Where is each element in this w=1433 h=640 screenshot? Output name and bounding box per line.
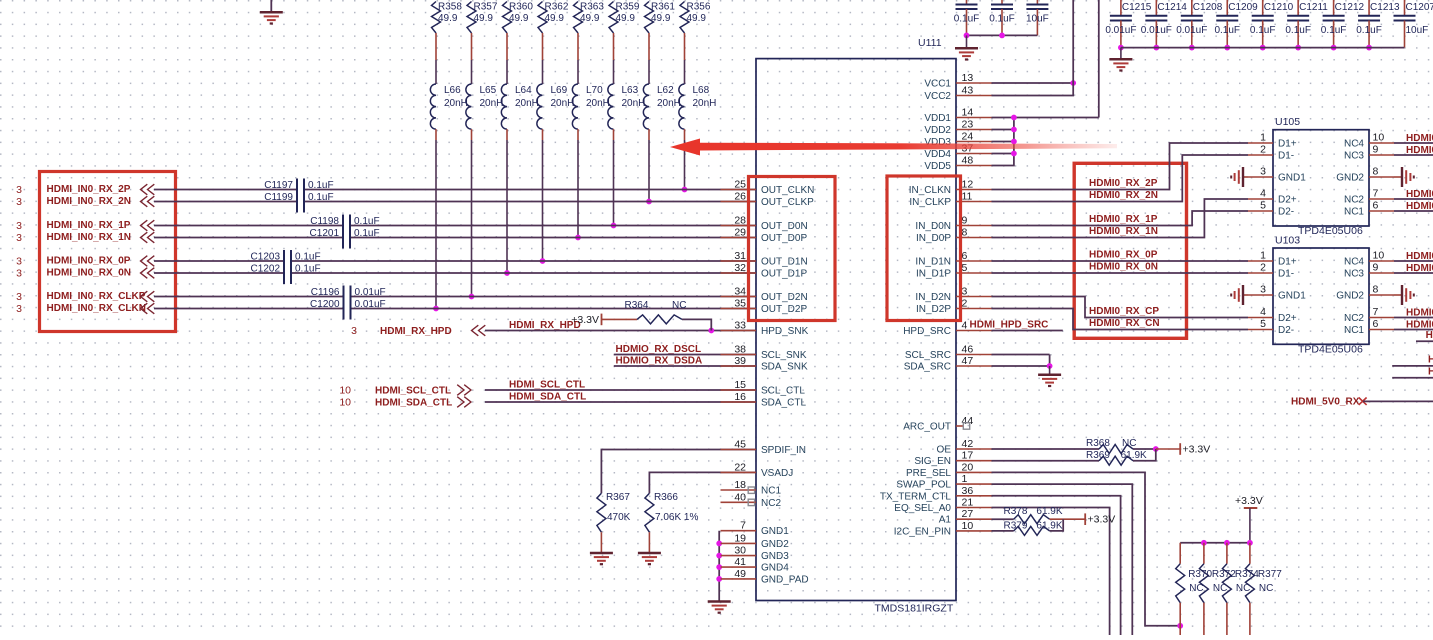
pin 29 OUT_D0P xyxy=(721,227,808,245)
wire R370 bottom lead xyxy=(1179,603,1181,635)
pin 35 OUT_D2P xyxy=(721,298,808,316)
wire HDMI_IN0_RX_1P xyxy=(154,225,342,227)
capacitor C1213 0.1uF xyxy=(1356,0,1400,48)
svg-text:10: 10 xyxy=(962,520,974,532)
svg-text:35: 35 xyxy=(734,298,746,310)
pin 4 D2+ (U103) xyxy=(1248,306,1297,324)
svg-text:HPD_SRC: HPD_SRC xyxy=(903,326,951,337)
wire to edge y=261 xyxy=(1394,260,1433,262)
off-page connector HDMI_IN0_RX_CLKN xyxy=(141,303,155,314)
capacitor C1212 0.1uF xyxy=(1321,0,1365,48)
resistor R370 NC xyxy=(1176,564,1213,603)
wire edge 365.9 xyxy=(1392,365,1433,367)
svg-text:3: 3 xyxy=(962,286,968,298)
svg-text:9: 9 xyxy=(962,215,968,227)
pin 37 VDD4 xyxy=(924,143,991,161)
junction VDD 141.5 xyxy=(1011,139,1017,145)
wire to +3.3V (OE) xyxy=(1156,448,1180,450)
svg-text:0.1uF: 0.1uF xyxy=(1321,25,1347,36)
ground (R366) xyxy=(638,553,661,564)
wire L69 to row xyxy=(542,129,544,140)
svg-text:HDMI_IN0_RX_0N: HDMI_IN0_RX_0N xyxy=(47,268,131,279)
junction GND 555.6 xyxy=(716,553,722,559)
svg-text:0.01uF: 0.01uF xyxy=(1105,25,1136,36)
pin 30 GND3 xyxy=(721,545,790,563)
svg-text:C1208: C1208 xyxy=(1193,2,1223,13)
svg-text:R364: R364 xyxy=(625,300,649,311)
svg-text:NC2: NC2 xyxy=(1344,195,1364,206)
pin 45 SPDIF_IN xyxy=(721,439,807,457)
ground (left cap bank) xyxy=(955,48,978,59)
svg-text:OE: OE xyxy=(937,445,952,456)
wire SRC to ground xyxy=(1049,366,1051,375)
svg-text:IN_D2P: IN_D2P xyxy=(916,304,951,315)
svg-text:8: 8 xyxy=(962,227,968,239)
svg-text:6: 6 xyxy=(1373,318,1379,330)
svg-text:0.01uF: 0.01uF xyxy=(1176,25,1207,36)
svg-text:L69: L69 xyxy=(551,85,568,96)
pin 21 EQ_SEL_A0 xyxy=(894,497,991,515)
wire L66 to row xyxy=(435,129,437,140)
svg-text:HDMI_5V0_RX: HDMI_5V0_RX xyxy=(1291,397,1360,408)
svg-text:47: 47 xyxy=(962,355,974,367)
pin 25 OUT_CLKN xyxy=(721,179,815,197)
pin 9 NC3 (U103) xyxy=(1344,262,1394,280)
svg-text:0.1uF: 0.1uF xyxy=(308,192,334,203)
svg-text:20nH: 20nH xyxy=(693,98,717,109)
wire R378 to +3.3V xyxy=(1050,518,1086,520)
svg-text:HDMI0_RX_0P: HDMI0_RX_0P xyxy=(1089,250,1158,261)
junction bank C1213 xyxy=(1366,45,1372,51)
wire GND bus xyxy=(718,531,720,601)
pin 38 SCL_SNK xyxy=(721,344,807,362)
pin 6 NC1 (U105) xyxy=(1344,200,1394,218)
wire to edge y=329.5 xyxy=(1394,329,1433,331)
svg-text:C1199: C1199 xyxy=(264,192,293,203)
svg-text:20nH: 20nH xyxy=(444,98,468,109)
pin 46 SCL_SRC xyxy=(905,344,992,362)
svg-text:C1211: C1211 xyxy=(1299,2,1328,13)
pin 47 SDA_SRC xyxy=(904,355,992,373)
svg-text:VSADJ: VSADJ xyxy=(761,468,793,479)
svg-text:+3.3V: +3.3V xyxy=(1183,444,1211,456)
pin 43 VCC2 xyxy=(924,85,991,103)
svg-text:VDD2: VDD2 xyxy=(924,125,951,136)
svg-text:C1201: C1201 xyxy=(310,228,340,239)
svg-text:10: 10 xyxy=(339,385,351,397)
svg-text:9: 9 xyxy=(1373,144,1379,156)
svg-text:NC1: NC1 xyxy=(1344,207,1364,218)
svg-text:45: 45 xyxy=(734,439,746,451)
wire SIG_EN xyxy=(992,460,1100,462)
svg-text:HPD_SNK: HPD_SNK xyxy=(761,326,809,337)
svg-text:HDMI_SCL_CTL: HDMI_SCL_CTL xyxy=(375,386,451,397)
pin 20 PRE_SEL xyxy=(906,461,992,479)
svg-text:OUT_CLKN: OUT_CLKN xyxy=(761,185,814,196)
svg-text:D2+: D2+ xyxy=(1278,313,1297,324)
svg-text:VDD1: VDD1 xyxy=(924,113,951,124)
wire HDMI0_RX_CP xyxy=(992,297,1249,318)
capacitor 10uF (left bank) xyxy=(1026,0,1049,35)
svg-text:NC4: NC4 xyxy=(1344,257,1364,268)
resistor R358 49.9 xyxy=(432,2,463,34)
wire VDD1 xyxy=(992,117,1099,119)
svg-text:SCL_CTL: SCL_CTL xyxy=(761,386,805,397)
wire HDMI0_RX_CN xyxy=(992,309,1249,330)
svg-text:0.1uF: 0.1uF xyxy=(354,216,380,227)
capacitor C1208 0.01uF xyxy=(1176,0,1222,48)
pin 7 NC2 (U103) xyxy=(1344,306,1394,324)
wire HDMI_5V0_RX xyxy=(1363,400,1433,402)
wire R368 out xyxy=(1133,448,1156,450)
svg-text:10: 10 xyxy=(339,397,351,409)
wire OE xyxy=(992,448,1100,450)
svg-text:IN_D0P: IN_D0P xyxy=(916,233,951,244)
svg-text:6: 6 xyxy=(1373,200,1379,212)
capacitor C1210 0.1uF xyxy=(1250,0,1294,48)
svg-text:4: 4 xyxy=(1260,188,1266,200)
svg-text:D2-: D2- xyxy=(1278,207,1294,218)
inductor L66 20nH xyxy=(430,84,468,129)
svg-text:0.1uF: 0.1uF xyxy=(1214,25,1240,36)
highlight box HDMI0_RX nets xyxy=(1074,163,1186,338)
off-page connector HDMI_IN0_RX_2P xyxy=(141,184,155,195)
svg-text:NC: NC xyxy=(1122,438,1136,449)
svg-text:HDMI0: HDMI0 xyxy=(1406,251,1433,262)
svg-text:20nH: 20nH xyxy=(551,98,575,109)
resistor R379 61.9K xyxy=(1004,521,1063,536)
svg-text:HDMI_RX_HPD: HDMI_RX_HPD xyxy=(509,320,581,331)
svg-text:HDMI0: HDMI0 xyxy=(1406,263,1433,274)
wire VDD4 xyxy=(992,153,1014,155)
svg-text:R369: R369 xyxy=(1086,450,1110,461)
svg-text:0.1uF: 0.1uF xyxy=(1285,25,1311,36)
svg-text:NC1: NC1 xyxy=(761,486,781,497)
junction rail R377 xyxy=(1247,540,1253,546)
svg-text:33: 33 xyxy=(734,320,746,332)
pin 14 VDD1 xyxy=(924,107,991,125)
pin 2 D1- (U103) xyxy=(1248,262,1294,280)
resistor R374 NC xyxy=(1222,564,1259,603)
svg-text:+3.3V: +3.3V xyxy=(1235,495,1263,507)
resistor R366 7.06K xyxy=(645,492,699,532)
resistor R377 NC xyxy=(1245,564,1282,603)
svg-text:1: 1 xyxy=(1260,132,1266,144)
capacitor C1203 0.1uF / C1202 0.1uF xyxy=(251,250,321,284)
svg-text:HDMI_IN0_RX_1P: HDMI_IN0_RX_1P xyxy=(47,220,131,231)
wire NC2 stub xyxy=(755,501,756,503)
svg-text:R370: R370 xyxy=(1188,569,1212,580)
svg-text:TX_TERM_CTL: TX_TERM_CTL xyxy=(880,491,952,502)
svg-text:HDMI0_RX_0N: HDMI0_RX_0N xyxy=(1089,262,1158,273)
svg-text:HDMI0_RX_CP: HDMI0_RX_CP xyxy=(1089,306,1159,317)
svg-text:46: 46 xyxy=(962,344,974,356)
svg-text:0.1uF: 0.1uF xyxy=(295,264,321,275)
svg-text:0.1uF: 0.1uF xyxy=(354,228,380,239)
svg-text:HDMIO_RX_DSCL: HDMIO_RX_DSCL xyxy=(616,344,702,355)
wire VDD5 xyxy=(992,118,1014,166)
wire R359 lead xyxy=(613,33,615,60)
wire SDA_SRC xyxy=(992,355,1050,367)
IC U111 TMDS181IRGZT body xyxy=(756,37,956,615)
svg-text:GND2: GND2 xyxy=(761,539,789,550)
junction VCC xyxy=(1070,80,1076,86)
svg-text:5: 5 xyxy=(1260,318,1266,330)
wire SPDIF_IN xyxy=(601,450,756,494)
svg-text:9: 9 xyxy=(1373,262,1379,274)
svg-text:NC1: NC1 xyxy=(1344,325,1364,336)
svg-text:OUT_D1N: OUT_D1N xyxy=(761,257,808,268)
power +3.3V (A1) xyxy=(1085,513,1115,525)
wire R374 bottom lead xyxy=(1226,603,1228,635)
svg-text:U105: U105 xyxy=(1275,116,1300,128)
svg-text:D1+: D1+ xyxy=(1278,139,1297,150)
svg-text:D1-: D1- xyxy=(1278,151,1294,162)
pin 48 VDD5 xyxy=(924,155,991,173)
wire R362 lead xyxy=(542,33,544,60)
power +3.3V (R364) xyxy=(571,314,601,326)
resistor R357 49.9 xyxy=(467,2,498,34)
wire VCC1 xyxy=(992,82,1074,84)
pin 39 SDA_SNK xyxy=(721,355,809,373)
capacitor C1198 0.1uF / C1201 0.1uF xyxy=(310,215,380,249)
svg-text:42: 42 xyxy=(962,438,974,450)
svg-text:61.9K: 61.9K xyxy=(1121,450,1147,461)
svg-text:10uF: 10uF xyxy=(1406,25,1429,36)
svg-text:IN_D1P: IN_D1P xyxy=(916,269,951,280)
pin 1 D1+ (U105) xyxy=(1248,132,1297,150)
svg-text:R379: R379 xyxy=(1004,521,1028,532)
wire HDMI0_RX_1P xyxy=(992,211,1249,226)
svg-text:8: 8 xyxy=(1373,166,1379,178)
pin 15 SCL_CTL xyxy=(721,379,806,397)
off-page connector HDMI_IN0_RX_1P xyxy=(141,220,155,231)
junction bank C1212 xyxy=(1331,45,1337,51)
resistor R367 470K xyxy=(597,492,631,532)
pin 11 IN_CLKP xyxy=(909,191,991,209)
wire SCL_SNK xyxy=(614,354,756,356)
svg-text:3: 3 xyxy=(16,232,22,244)
wire HDMI0_RX_0N xyxy=(992,272,1249,274)
svg-text:12: 12 xyxy=(962,179,974,191)
pin 3 GND1 (U103) xyxy=(1248,284,1306,302)
junction rail R374 xyxy=(1224,540,1230,546)
resistor R372 NC xyxy=(1199,564,1236,603)
svg-text:0.01uF: 0.01uF xyxy=(1141,25,1172,36)
svg-text:OUT_D2P: OUT_D2P xyxy=(761,304,807,315)
junction rail 966 xyxy=(964,33,970,39)
svg-text:10: 10 xyxy=(1373,250,1385,262)
ground (U111 GND pins) xyxy=(708,602,731,613)
svg-text:GND1: GND1 xyxy=(761,526,789,537)
inductor L69 20nH xyxy=(537,84,575,129)
svg-text:GND2: GND2 xyxy=(1336,173,1364,184)
svg-text:C1203: C1203 xyxy=(251,252,281,263)
wire R377 top lead xyxy=(1249,543,1251,564)
svg-text:0.1uF: 0.1uF xyxy=(989,14,1015,25)
pin 5 D2- (U105) xyxy=(1248,200,1294,218)
junction GND 578.9 xyxy=(716,576,722,582)
wire A1 xyxy=(992,518,1014,520)
svg-text:31: 31 xyxy=(734,250,746,262)
svg-text:HDMI_IN0_RX_CLKP: HDMI_IN0_RX_CLKP xyxy=(47,291,146,302)
svg-text:48: 48 xyxy=(962,155,974,167)
svg-text:C1210: C1210 xyxy=(1264,2,1294,13)
wire VDD2 xyxy=(992,129,1014,131)
svg-text:2: 2 xyxy=(1260,144,1266,156)
svg-text:16: 16 xyxy=(734,391,746,403)
svg-text:IN_CLKN: IN_CLKN xyxy=(909,185,951,196)
off-page connector HDMI_SCL_CTL xyxy=(457,385,471,396)
svg-text:U103: U103 xyxy=(1275,235,1300,247)
svg-text:23: 23 xyxy=(962,119,974,131)
svg-text:D1+: D1+ xyxy=(1278,257,1297,268)
IC U105 TPD4E05U06 body xyxy=(1273,116,1369,237)
off-page connector HDMI_IN0_RX_0N xyxy=(141,268,155,279)
svg-text:GND3: GND3 xyxy=(761,551,789,562)
junction SRC xyxy=(1047,363,1053,369)
svg-text:GND2: GND2 xyxy=(1336,291,1364,302)
svg-text:NC3: NC3 xyxy=(1344,269,1364,280)
pin 19 GND2 xyxy=(721,532,790,550)
svg-text:5: 5 xyxy=(962,262,968,274)
junction col2 xyxy=(469,294,475,300)
inductor L62 20nH xyxy=(643,84,681,129)
svg-text:TPD4E05U06: TPD4E05U06 xyxy=(1298,225,1363,237)
pin 6 NC1 (U103) xyxy=(1344,318,1394,336)
wire R377 bottom lead xyxy=(1249,603,1251,635)
junction R368 xyxy=(1153,446,1159,452)
svg-text:HDMI_IN0_RX_2N: HDMI_IN0_RX_2N xyxy=(47,196,131,207)
svg-text:20nH: 20nH xyxy=(480,98,504,109)
svg-text:OUT_D1P: OUT_D1P xyxy=(761,269,807,280)
wire SDA_SNK xyxy=(614,365,756,367)
svg-text:L65: L65 xyxy=(480,85,497,96)
junction VDD 117.5 xyxy=(1011,115,1017,121)
ground (U105 GND1) xyxy=(1231,167,1248,187)
svg-text:HDMI0: HDMI0 xyxy=(1406,320,1433,331)
svg-text:HDMI_IN0_RX_1N: HDMI_IN0_RX_1N xyxy=(47,232,131,243)
svg-text:R358: R358 xyxy=(438,2,462,13)
pin 27 A1 xyxy=(939,508,992,526)
wire to edge y=211 xyxy=(1394,210,1433,212)
svg-text:VCC1: VCC1 xyxy=(924,79,951,90)
svg-text:R378: R378 xyxy=(1004,506,1028,517)
svg-text:VDD5: VDD5 xyxy=(924,161,951,172)
svg-text:OUT_D0P: OUT_D0P xyxy=(761,233,807,244)
svg-text:VCC2: VCC2 xyxy=(924,91,951,102)
svg-text:24: 24 xyxy=(962,131,974,143)
pin 8 GND2 (U103) xyxy=(1336,284,1394,302)
wire HDMI_SDA_CTL xyxy=(485,401,756,403)
junction GND 567.1 xyxy=(716,564,722,570)
wire EQ_SEL_A0 xyxy=(992,508,1110,636)
wire L65 to row xyxy=(471,129,473,140)
svg-text:NC3: NC3 xyxy=(1344,151,1364,162)
wire R356 lead xyxy=(684,33,686,60)
svg-text:39: 39 xyxy=(734,355,746,367)
svg-text:SWAP_POL: SWAP_POL xyxy=(896,480,951,491)
wire R363 lead xyxy=(577,33,579,60)
resistor R356 49.9 xyxy=(680,2,711,34)
svg-text:C1215: C1215 xyxy=(1122,2,1152,13)
wire R367 to ground xyxy=(600,532,602,553)
capacitor C1196 0.01uF / C1200 0.01uF xyxy=(310,286,386,320)
junction bank C1211 xyxy=(1295,45,1301,51)
pin 5 IN_D1P xyxy=(916,262,992,280)
svg-text:14: 14 xyxy=(962,107,974,119)
svg-text:R356: R356 xyxy=(687,2,711,13)
pin 7 GND1 xyxy=(721,520,790,538)
pin 24 VDD3 xyxy=(924,131,991,149)
wire VDD3 xyxy=(992,141,1014,143)
svg-text:0.1uF: 0.1uF xyxy=(1250,25,1276,36)
svg-text:HDMI_HPD_SRC: HDMI_HPD_SRC xyxy=(970,320,1049,331)
pin 9 IN_D0N xyxy=(915,215,991,233)
capacitor 0.1uF (left bank) xyxy=(954,0,980,35)
wire HDMI_IN0_RX_1N xyxy=(154,237,342,239)
pin 26 OUT_CLKP xyxy=(721,191,815,209)
svg-text:0.1uF: 0.1uF xyxy=(1356,25,1382,36)
junction rail 1002 xyxy=(999,33,1005,39)
capacitor C1197 0.1uF / C1199 0.1uF xyxy=(264,179,333,213)
dangling X HDMI_5V0_RX xyxy=(1359,398,1367,405)
svg-text:U111: U111 xyxy=(918,37,942,49)
junction rail R372 xyxy=(1201,540,1207,546)
svg-text:SDA_SNK: SDA_SNK xyxy=(761,362,808,373)
resistor R360 49.9 xyxy=(503,2,534,34)
svg-text:3: 3 xyxy=(16,220,22,232)
capacitor C1215 0.01uF xyxy=(1105,0,1151,48)
svg-text:61.9K: 61.9K xyxy=(1036,506,1062,517)
svg-text:7: 7 xyxy=(740,520,746,532)
svg-text:D2-: D2- xyxy=(1278,325,1294,336)
wire NC1 stub xyxy=(755,489,756,491)
svg-text:11: 11 xyxy=(962,191,973,203)
wire to edge y=317.5 xyxy=(1394,317,1433,319)
svg-text:3: 3 xyxy=(16,196,22,208)
red arrow annotation xyxy=(670,139,1117,156)
svg-text:I2C_EN_PIN: I2C_EN_PIN xyxy=(894,526,951,537)
svg-text:13: 13 xyxy=(962,72,974,84)
svg-text:0.01uF: 0.01uF xyxy=(355,287,386,298)
svg-text:61.9K: 61.9K xyxy=(1036,521,1062,532)
wire HDMI0_RX_2N xyxy=(992,155,1249,202)
svg-text:21: 21 xyxy=(962,497,974,509)
pin 12 IN_CLKN xyxy=(909,179,992,197)
resistor R361 49.9 xyxy=(645,2,676,34)
no-connect square NC2 xyxy=(748,499,754,505)
ground (R367) xyxy=(590,553,613,564)
wire HDMI0_RX_2P xyxy=(992,143,1249,190)
junction bank C1214 xyxy=(1153,45,1159,51)
svg-text:49.9: 49.9 xyxy=(509,13,529,24)
svg-text:20nH: 20nH xyxy=(515,98,539,109)
pin 10 I2C_EN_PIN xyxy=(894,520,992,538)
pin 9 NC3 (U105) xyxy=(1344,144,1394,162)
wire to edge y=155 xyxy=(1394,154,1433,156)
power +3.3V (OE) xyxy=(1180,443,1210,455)
svg-text:10uF: 10uF xyxy=(1026,14,1049,25)
junction bank C1210 xyxy=(1260,45,1266,51)
wire L70 to row xyxy=(577,129,579,140)
svg-text:ARC_OUT: ARC_OUT xyxy=(903,422,951,433)
wire stub edge 341 xyxy=(1416,340,1433,342)
pin 3 IN_D2N xyxy=(915,286,991,304)
svg-text:R359: R359 xyxy=(616,2,640,13)
svg-text:HDMI_RX_HPD: HDMI_RX_HPD xyxy=(380,326,452,337)
svg-text:C1202: C1202 xyxy=(251,264,281,275)
